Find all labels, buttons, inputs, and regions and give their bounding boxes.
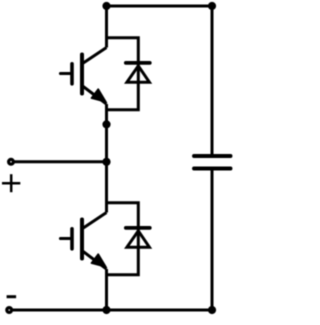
wire: phase leg mid segment: [105, 104, 108, 213]
wire: bottom DC- rail: [13, 309, 213, 312]
Q1 emitter arrow: [91, 89, 106, 102]
wire: phase leg from top rail to Q1 collector: [105, 6, 108, 48]
Q1 body bar: [80, 55, 84, 94]
junction dot: bottom-mid node: [102, 306, 110, 314]
Q2 gate bar: [70, 229, 74, 249]
D2 triangle: [127, 231, 149, 247]
capacitor C1: [194, 156, 231, 169]
Q1 gate lead: [61, 72, 71, 75]
D1 cathode bar: [126, 61, 150, 65]
wire: D1 branch (collector tap, right leg, emitter tap): [107, 38, 139, 110]
D2 cathode bar: [126, 226, 150, 230]
IGBT Q1 (upper): [61, 48, 107, 105]
wire: right bus upper segment (top rail to capacitor): [211, 6, 214, 154]
label: plus sign: [2, 174, 20, 192]
wire: + input lead: [14, 160, 106, 163]
Q1 gate bar: [70, 64, 74, 84]
Q1 collector lead: [83, 48, 107, 64]
diode D2 (lower freewheeling): [126, 228, 150, 247]
junction dot: top-right node: [208, 2, 216, 10]
Q2 body bar: [80, 220, 84, 259]
Q2 collector lead: [83, 213, 107, 229]
Q2 gate lead: [61, 237, 71, 240]
junction dot: phase mid node: [102, 120, 110, 128]
junction dot: bottom-right node: [208, 306, 216, 314]
wire: right bus lower segment (capacitor to bottom rail): [211, 170, 214, 310]
wire: phase leg bottom segment: [105, 269, 108, 310]
diode D1 (upper freewheeling): [126, 63, 150, 82]
terminal: - input: [7, 308, 12, 313]
D1 triangle: [127, 66, 149, 82]
IGBT Q2 (lower): [61, 213, 107, 270]
wire: D2 branch (collector tap, right leg, emitter tap): [107, 203, 139, 275]
Q1 emitter lead: [83, 86, 107, 104]
label: minus sign: [7, 295, 17, 298]
wire: top DC+ rail: [107, 5, 213, 8]
Q2 emitter lead: [83, 251, 107, 269]
junction dot: top-left node: [102, 2, 110, 10]
junction dot: + input tee: [102, 158, 110, 166]
Q2 emitter arrow: [91, 254, 106, 267]
terminal: + input: [9, 159, 14, 164]
